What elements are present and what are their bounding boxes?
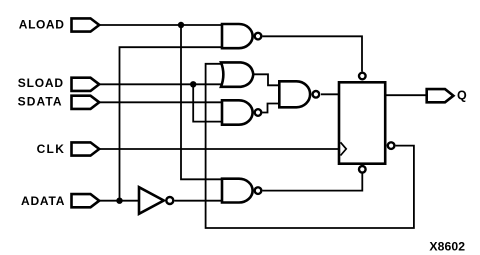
svg-text:CLK: CLK (37, 142, 66, 156)
svg-text:ALOAD: ALOAD (19, 17, 65, 31)
svg-text:SLOAD: SLOAD (18, 76, 64, 90)
svg-text:ADATA: ADATA (21, 194, 65, 208)
svg-text:SDATA: SDATA (18, 95, 63, 109)
svg-text:Q: Q (457, 89, 467, 103)
svg-text:X8602: X8602 (429, 239, 465, 253)
